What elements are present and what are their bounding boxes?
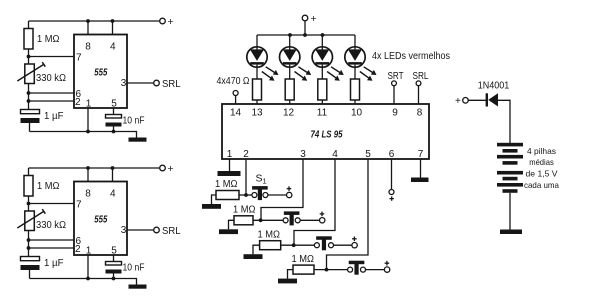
- wire: node to pin 6 (osc 2): [29, 239, 75, 241]
- svg-text:3: 3: [300, 149, 306, 160]
- wire: +V bus of 555 osc 1: [29, 20, 160, 22]
- wire: row 4 resistor to ground: [288, 270, 294, 279]
- resistor 1 M&#937; row 3: [260, 241, 281, 250]
- junction on +V bus at pin 4 (osc 2): [111, 166, 115, 170]
- svg-text:10 nF: 10 nF: [123, 116, 145, 127]
- svg-text:1 MΩ: 1 MΩ: [37, 181, 60, 192]
- svg-text:1 µF: 1 µF: [44, 111, 64, 122]
- svg-text:8: 8: [85, 42, 91, 53]
- wire: cap to ground rail (osc 1): [29, 123, 31, 132]
- junction row 2: [259, 218, 263, 222]
- wire: node to pin 6 (osc 1): [29, 92, 75, 94]
- junction LED bus c: [321, 33, 325, 37]
- node SRT terminal: [392, 81, 397, 86]
- potentiometer 330 k&#937; (osc 2): [17, 209, 45, 230]
- wire: pin 5 descent: [327, 159, 369, 270]
- svg-text:5: 5: [365, 149, 371, 160]
- junction rail 10nF (osc 2): [112, 277, 116, 281]
- potentiometer 330 k&#937; (osc 1): [17, 62, 45, 83]
- wire: + terminal drop to LED bus: [304, 21, 306, 35]
- junction pin2 node (osc 2): [27, 246, 31, 250]
- capacitor 1 &#181;F (osc 2): [21, 257, 40, 271]
- svg-text:1 MΩ: 1 MΩ: [258, 229, 281, 240]
- node + terminal row 4: [384, 261, 389, 272]
- wire: bus to LED 4: [354, 35, 356, 50]
- svg-text:+: +: [311, 13, 317, 25]
- wire: row 1 resistor to switch: [239, 194, 252, 196]
- svg-text:4 pilhas: 4 pilhas: [527, 146, 556, 156]
- svg-text:1 MΩ: 1 MΩ: [215, 179, 238, 190]
- svg-text:+: +: [168, 163, 174, 175]
- wire: node to pin 2 (osc 2): [29, 247, 75, 249]
- wire: 10nF to rail (osc 2): [113, 274, 115, 279]
- ground symbol row 3: [244, 254, 263, 259]
- junction pin6 node (osc 2): [27, 238, 31, 242]
- wire: resistor 4 to IC pin: [354, 100, 356, 104]
- junction pin2 node (osc 1): [27, 99, 31, 103]
- svg-text:4: 4: [110, 42, 116, 53]
- svg-text:médias: médias: [529, 157, 554, 167]
- wire: row 2 switch to + terminal: [300, 219, 319, 221]
- wire: LED 2 cathode to resistor: [289, 65, 291, 79]
- svg-text:13: 13: [251, 108, 263, 119]
- LED 1 light arrows: [262, 67, 279, 81]
- wire: bus to LED 2: [289, 35, 291, 50]
- wire: pin 14 stub: [235, 96, 237, 105]
- wire: node to pin 7 (osc 1): [29, 56, 75, 58]
- wire: SRL to pin 8: [418, 86, 420, 104]
- svg-text:330 kΩ: 330 kΩ: [36, 220, 66, 231]
- junction on +V bus at pin 8 (osc 2): [86, 166, 90, 170]
- wire: SRT to pin 9: [393, 86, 395, 104]
- node SRL output (osc 2): [154, 227, 160, 233]
- svg-text:1 MΩ: 1 MΩ: [292, 254, 315, 265]
- node +V terminal LED bus: [302, 13, 316, 25]
- timer IC 555 (osc 1): [74, 35, 127, 109]
- svg-text:2: 2: [243, 149, 249, 160]
- svg-text:9: 9: [392, 108, 398, 119]
- svg-text:2: 2: [75, 97, 81, 108]
- svg-text:7: 7: [76, 200, 82, 211]
- wire: 10nF to rail (osc 1): [113, 127, 115, 132]
- ground symbol (osc 1): [129, 138, 147, 142]
- wire: pin 3 output (osc 1): [127, 82, 154, 84]
- wire: pin 4 to bus (osc 2): [112, 168, 114, 182]
- junction row 1: [244, 193, 248, 197]
- ground symbol battery: [500, 230, 522, 235]
- node SRL output (osc 1): [154, 80, 160, 86]
- svg-text:10: 10: [351, 108, 363, 119]
- wire: cap to ground rail (osc 2): [29, 270, 31, 279]
- node SRL terminal: [416, 81, 421, 86]
- junction row 3: [292, 243, 296, 247]
- ground symbol (osc 2): [129, 285, 147, 289]
- junction rail pin1 (osc 2): [86, 277, 90, 281]
- wire: LED 1 cathode to resistor: [256, 65, 258, 79]
- LED 3 light arrows: [327, 67, 344, 81]
- svg-text:7: 7: [76, 53, 82, 64]
- wire: row 3 switch to + terminal: [334, 244, 352, 246]
- svg-text:5: 5: [111, 246, 117, 257]
- wire: terminal to diode: [468, 99, 486, 101]
- svg-text:cada uma: cada uma: [524, 180, 559, 190]
- svg-text:4x LEDs vermelhos: 4x LEDs vermelhos: [372, 51, 450, 62]
- battery 4 cells: [497, 143, 523, 193]
- svg-text:8: 8: [85, 189, 91, 200]
- junction rail 10nF (osc 1): [112, 130, 116, 134]
- svg-text:+: +: [455, 96, 461, 107]
- resistor 470 &#937; #1: [253, 79, 262, 100]
- wire: pin 4 descent: [294, 159, 335, 245]
- wire: row 2 resistor to switch: [253, 219, 283, 221]
- pushbutton switch row 2: [283, 211, 300, 225]
- svg-text:555: 555: [94, 68, 107, 79]
- wire: pin 6 stub: [391, 159, 393, 190]
- IC 74 LS 95: [222, 104, 429, 159]
- junction on +V bus at pin 4 (osc 1): [111, 19, 115, 23]
- wire: row 3 resistor to ground: [253, 245, 260, 254]
- LED 3 (red): [312, 47, 332, 67]
- svg-text:8: 8: [417, 108, 423, 119]
- svg-text:330 kΩ: 330 kΩ: [36, 73, 66, 84]
- wire: pin 4 to bus (osc 1): [112, 21, 114, 35]
- wire: pin 7 to ground: [420, 159, 422, 178]
- svg-text:14: 14: [230, 108, 242, 119]
- wire: pin 2 descent: [245, 159, 247, 195]
- wire: ground rail (osc 2): [30, 279, 137, 285]
- wire: LED 3 cathode to resistor: [321, 65, 323, 79]
- svg-text:4: 4: [110, 189, 116, 200]
- wire: row 2 resistor to ground: [229, 220, 235, 229]
- wire: node to pin 7 (osc 2): [29, 203, 75, 205]
- node pin 6 + terminal: [389, 190, 394, 201]
- wire: row 4 resistor to switch: [314, 269, 348, 271]
- svg-text:SRL: SRL: [413, 71, 429, 82]
- svg-text:S: S: [256, 173, 263, 185]
- LED 1 (red): [247, 47, 267, 67]
- wire: LED anode bus: [257, 34, 355, 36]
- diode 1N4001: [487, 93, 498, 106]
- capacitor 10 nF (osc 2): [106, 262, 122, 274]
- svg-text:4x470 Ω: 4x470 Ω: [217, 76, 250, 87]
- node + terminal row 1: [287, 186, 292, 197]
- svg-text:5: 5: [111, 99, 117, 110]
- LED 4 (red): [345, 47, 365, 67]
- junction pin7 node (osc 1): [27, 55, 31, 59]
- wire: ground rail (osc 1): [30, 132, 137, 138]
- svg-text:1: 1: [86, 246, 92, 257]
- wire: resistor to pot (osc 1): [28, 49, 30, 64]
- capacitor 1 &#181;F (osc 1): [21, 110, 40, 124]
- wire: bus to resistor (osc 2): [28, 168, 30, 176]
- wire: +V bus of 555 osc 2: [29, 167, 160, 169]
- resistor 470 &#937; #3: [318, 79, 327, 100]
- wire: LED 4 cathode to resistor: [354, 65, 356, 79]
- svg-text:1: 1: [86, 99, 92, 110]
- svg-text:3: 3: [121, 78, 127, 89]
- wire: diode to battery: [498, 100, 510, 143]
- junction pin6 node (osc 1): [27, 91, 31, 95]
- ground symbol pin 7: [411, 178, 429, 183]
- svg-text:SRL: SRL: [162, 78, 181, 90]
- resistor 470 &#937; #2: [285, 79, 294, 100]
- svg-text:2: 2: [75, 244, 81, 255]
- wire: resistor 3 to IC pin: [321, 100, 323, 104]
- wire: row 1 switch to + terminal: [268, 194, 286, 196]
- svg-text:12: 12: [283, 108, 295, 119]
- svg-text:SRT: SRT: [388, 71, 404, 82]
- node + terminal row 2: [320, 212, 325, 223]
- svg-text:1 µF: 1 µF: [44, 258, 64, 269]
- resistor 1 M&#937; (osc 2): [24, 176, 33, 197]
- LED 2 (red): [280, 47, 300, 67]
- svg-text:6: 6: [389, 149, 395, 160]
- svg-text:1N4001: 1N4001: [478, 81, 510, 92]
- wire: pin 8 to bus (osc 1): [87, 21, 89, 35]
- wire: row 1 resistor to ground: [212, 195, 217, 204]
- junction LED bus a: [288, 33, 292, 37]
- capacitor 10 nF (osc 1): [106, 115, 122, 127]
- resistor 1 M&#937; (osc 1): [24, 29, 33, 50]
- wire: row 4 switch to + terminal: [366, 269, 385, 271]
- pushbutton switch row 1 S1: [252, 186, 268, 200]
- node +V terminal of 555 osc 1: [160, 16, 174, 28]
- wire: pin 1 to rail (osc 2): [87, 255, 89, 279]
- timer IC 555 (osc 2): [74, 182, 127, 256]
- svg-text:7: 7: [418, 149, 424, 160]
- wire: battery to ground: [509, 193, 511, 230]
- node pin 14 input terminal: [233, 91, 238, 96]
- node battery + input: [455, 96, 468, 107]
- svg-text:10 nF: 10 nF: [123, 263, 145, 274]
- svg-text:555: 555: [94, 215, 107, 226]
- wire: pin 5 to 10nF (osc 1): [113, 108, 115, 115]
- svg-text:SRL: SRL: [162, 225, 181, 237]
- wire: bus to resistor (osc 1): [28, 21, 30, 29]
- resistor 1 M&#937; row 2: [234, 216, 253, 225]
- svg-text:1: 1: [227, 149, 233, 160]
- wire: pin 1 to ground: [229, 159, 231, 171]
- wire: pin 3 descent: [261, 159, 303, 220]
- junction rail pin1 (osc 1): [86, 130, 90, 134]
- svg-text:+: +: [168, 16, 174, 28]
- svg-text:74 LS 95: 74 LS 95: [311, 130, 343, 141]
- resistor 1 M&#937; row 4: [293, 265, 314, 274]
- wire: pot to cap (osc 1): [28, 84, 30, 110]
- junction on +V bus at pin 8 (osc 1): [86, 19, 90, 23]
- svg-text:1: 1: [263, 177, 267, 186]
- svg-text:1 MΩ: 1 MΩ: [37, 34, 60, 45]
- ground symbol row 4: [278, 279, 297, 284]
- wire: resistor 1 to IC pin: [256, 100, 258, 104]
- svg-text:4: 4: [332, 149, 338, 160]
- wire: resistor to pot (osc 2): [28, 196, 30, 211]
- junction pin7 node (osc 2): [27, 202, 31, 206]
- pushbutton switch row 3: [314, 236, 333, 250]
- svg-text:11: 11: [317, 108, 328, 119]
- ground symbol row 2: [219, 229, 238, 234]
- pushbutton switch row 4: [348, 261, 366, 275]
- switch label S1: [256, 173, 267, 186]
- svg-text:de 1,5 V: de 1,5 V: [526, 169, 558, 179]
- svg-text:3: 3: [121, 225, 127, 236]
- wire: pin 5 to 10nF (osc 2): [113, 255, 115, 262]
- wire: resistor 2 to IC pin: [289, 100, 291, 104]
- wire: pin 1 to rail (osc 1): [87, 108, 89, 132]
- wire: row 3 resistor to switch: [281, 244, 315, 246]
- wire: pin 8 to bus (osc 2): [87, 168, 89, 182]
- ground symbol pin 1: [218, 171, 241, 176]
- wire: bus to LED 3: [321, 35, 323, 50]
- wire: pin 3 output (osc 2): [127, 229, 154, 231]
- node + terminal row 3: [352, 237, 357, 248]
- wire: pot to cap (osc 2): [28, 231, 30, 257]
- resistor 1 M&#937; row 1: [216, 191, 239, 200]
- junction row 4: [325, 268, 329, 272]
- wire: bus to LED 1: [256, 35, 258, 50]
- wire: node to pin 2 (osc 1): [29, 100, 75, 102]
- LED 2 light arrows: [295, 67, 312, 81]
- resistor 470 &#937; #4: [351, 79, 360, 100]
- junction LED bus b: [303, 33, 307, 37]
- ground symbol row 1: [202, 204, 221, 209]
- LED 4 light arrows: [360, 67, 377, 81]
- svg-text:1 MΩ: 1 MΩ: [233, 205, 256, 216]
- node +V terminal of 555 osc 2: [160, 163, 174, 175]
